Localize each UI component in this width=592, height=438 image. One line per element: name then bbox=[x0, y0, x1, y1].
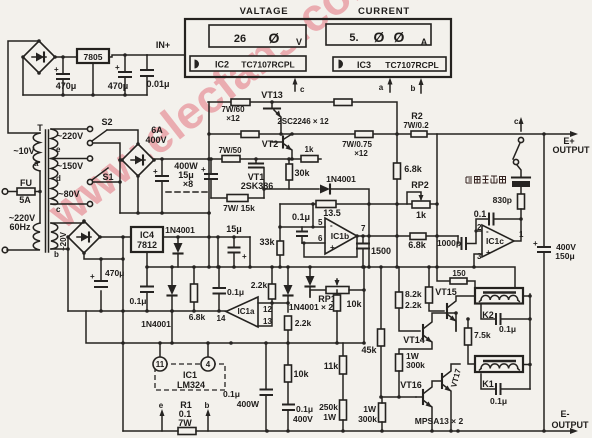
resistor 2.2k (below diode) bbox=[287, 330, 289, 343]
resistor 6.8k vertical x397 bbox=[396, 134, 398, 267]
capacitor 0.1u (IC1a in) bbox=[218, 267, 220, 311]
svg-text:6A: 6A bbox=[151, 125, 163, 135]
wire E+ rail y134 bbox=[209, 133, 574, 135]
svg-text:1500: 1500 bbox=[371, 246, 391, 256]
svg-text:11: 11 bbox=[156, 360, 165, 369]
pin circle 11 bbox=[159, 343, 161, 357]
resistor 45k bbox=[380, 267, 382, 397]
tap wire ~80V bbox=[51, 203, 87, 205]
svg-text:2.2k: 2.2k bbox=[295, 318, 312, 328]
svg-text:+: + bbox=[90, 272, 95, 281]
node a arrow under meter bbox=[389, 81, 391, 92]
wire y397 to VT16 base bbox=[381, 396, 416, 398]
svg-text:IC1b: IC1b bbox=[331, 231, 349, 241]
svg-text:45k: 45k bbox=[361, 345, 377, 355]
wire bridge3 bottom to cap 470u bbox=[84, 253, 123, 311]
transformer core bbox=[46, 130, 49, 252]
svg-text:S2: S2 bbox=[101, 117, 112, 127]
svg-text:+: + bbox=[54, 65, 59, 74]
svg-text:0.1μ: 0.1μ bbox=[499, 324, 516, 334]
resistor 6.8k (IC1a) bbox=[193, 267, 195, 311]
wire main bus x209 bbox=[208, 102, 210, 267]
capacitor C1 470u bbox=[62, 57, 64, 95]
svg-text:T: T bbox=[37, 123, 43, 133]
svg-text:b: b bbox=[411, 84, 416, 93]
switch S2 bbox=[87, 140, 92, 145]
svg-text:~10V: ~10V bbox=[13, 146, 34, 156]
svg-text:1k: 1k bbox=[416, 210, 427, 220]
op-amp IC1b bbox=[325, 218, 357, 254]
resistor 8.2k bbox=[399, 267, 420, 331]
wire bridge2 bottom to rail bbox=[137, 176, 139, 213]
svg-text:7W/ 15k: 7W/ 15k bbox=[223, 203, 255, 213]
svg-text:1N4001: 1N4001 bbox=[141, 319, 171, 329]
capacitor C2 470u bbox=[124, 55, 126, 95]
svg-text:IC2: IC2 bbox=[215, 60, 229, 70]
capacitor 0.1u 400W bbox=[265, 343, 267, 431]
diode 1N4001 (x172) bbox=[171, 267, 173, 343]
wire bridge1 left down bbox=[22, 57, 24, 95]
wire 7805 to IN+ bbox=[109, 55, 147, 57]
svg-text:VT16: VT16 bbox=[400, 380, 422, 390]
svg-text:~220V: ~220V bbox=[57, 131, 83, 141]
wire winding to fuse junction bbox=[39, 171, 41, 223]
svg-text:E-: E- bbox=[561, 409, 570, 419]
svg-text:470μ: 470μ bbox=[105, 268, 124, 278]
wire bridge1 out to 7805 bbox=[55, 56, 77, 58]
svg-text:0.1μ: 0.1μ bbox=[223, 389, 240, 399]
svg-text:300k: 300k bbox=[406, 360, 425, 370]
svg-text:VT15: VT15 bbox=[435, 287, 457, 297]
svg-text:1W: 1W bbox=[323, 412, 337, 422]
transistor VT1 2SK386 bbox=[255, 159, 257, 163]
svg-text:33k: 33k bbox=[259, 237, 275, 247]
svg-text:RP2: RP2 bbox=[411, 180, 429, 190]
wire bridge3 to IC4 bbox=[100, 236, 131, 238]
svg-text:IC4: IC4 bbox=[140, 230, 154, 240]
svg-text:V: V bbox=[296, 37, 302, 47]
svg-text:15μ: 15μ bbox=[226, 224, 242, 234]
svg-text:1k: 1k bbox=[305, 145, 314, 154]
svg-text:7805: 7805 bbox=[84, 52, 103, 62]
wire K relays right bus bbox=[523, 294, 530, 389]
svg-text:+: + bbox=[115, 63, 120, 72]
meter panel outer box bbox=[185, 19, 451, 77]
bottom rail y431 bbox=[123, 430, 574, 432]
svg-text:1W: 1W bbox=[363, 404, 377, 414]
regulator 7805 box bbox=[77, 49, 109, 63]
svg-text:7W/60: 7W/60 bbox=[221, 105, 245, 114]
resistor 250k 1W bbox=[340, 400, 347, 420]
wire top rail y102 bbox=[208, 102, 397, 134]
svg-text:300k: 300k bbox=[358, 414, 377, 424]
resistor 2.2k (VT15) bbox=[429, 267, 444, 311]
tap wire ~220V bbox=[51, 128, 87, 130]
svg-text:5A: 5A bbox=[19, 195, 31, 205]
node c arrow under meter bbox=[294, 81, 296, 91]
svg-text:7.5k: 7.5k bbox=[474, 330, 491, 340]
svg-text:+: + bbox=[330, 243, 335, 252]
wire rail y159 bbox=[209, 158, 321, 160]
terminal AC1 bbox=[2, 189, 8, 195]
svg-text:250k: 250k bbox=[319, 402, 338, 412]
svg-text:+: + bbox=[242, 252, 247, 261]
resistor 7.5k bbox=[468, 319, 475, 364]
svg-text:TC7107RCPL: TC7107RCPL bbox=[385, 60, 438, 70]
svg-text:470μ: 470μ bbox=[56, 81, 77, 91]
svg-text:0.01μ: 0.01μ bbox=[146, 79, 169, 89]
relay K1 bbox=[475, 356, 523, 372]
wire rail y267 bbox=[147, 267, 515, 288]
svg-text:14: 14 bbox=[217, 314, 226, 323]
svg-text:LM324: LM324 bbox=[177, 380, 205, 390]
svg-text:6.8k: 6.8k bbox=[404, 164, 423, 174]
capacitor 0.1u (K1) bbox=[481, 374, 530, 389]
svg-text:OUTPUT: OUTPUT bbox=[553, 145, 591, 155]
svg-text:30k: 30k bbox=[294, 168, 310, 178]
svg-text:IC1c: IC1c bbox=[486, 236, 504, 246]
svg-text:×12: ×12 bbox=[226, 114, 240, 123]
wire bridge3 left down to rail y311 bbox=[67, 237, 69, 311]
svg-text:26: 26 bbox=[234, 33, 246, 45]
wire bridge1 top to left bus bbox=[8, 41, 40, 133]
svg-text:0.1μ: 0.1μ bbox=[129, 296, 146, 306]
feedback loop IC1b bbox=[304, 236, 357, 257]
wire 7805 ground pin bbox=[92, 63, 94, 95]
transformer winding ~20V bbox=[51, 223, 58, 249]
piezo buzzer label (CJK drawn) bbox=[466, 176, 506, 183]
svg-text:b: b bbox=[205, 401, 210, 410]
svg-text:×8: ×8 bbox=[183, 179, 193, 189]
bus x123 down bbox=[122, 237, 124, 431]
current display window bbox=[326, 24, 431, 45]
svg-text:c: c bbox=[56, 205, 61, 214]
svg-text:1N4001: 1N4001 bbox=[326, 174, 356, 184]
svg-text:+: + bbox=[153, 167, 158, 176]
regulator IC4 7812 bbox=[131, 227, 163, 252]
wire to bridge2 left bbox=[120, 159, 122, 161]
op-amp IC1a bbox=[226, 297, 258, 327]
svg-text:+: + bbox=[486, 248, 491, 257]
svg-text:MPSA13 × 2: MPSA13 × 2 bbox=[415, 416, 464, 426]
svg-text:0.1μ: 0.1μ bbox=[490, 396, 507, 406]
svg-text:b: b bbox=[54, 250, 59, 259]
resistor 6.8k (pin7 wire) bbox=[410, 233, 426, 240]
svg-text:400V: 400V bbox=[293, 414, 313, 424]
svg-text:+: + bbox=[201, 165, 206, 174]
resistor 7W15k bbox=[211, 197, 264, 199]
pin1 output wire bbox=[514, 219, 521, 241]
capacitor bank C 400W 15u x8 bbox=[161, 159, 163, 213]
op-amp U? IC2 box TC7107RCPL bbox=[190, 56, 306, 71]
svg-text:6.8k: 6.8k bbox=[189, 312, 206, 322]
bridge rectifier B2 6A 400V bbox=[120, 142, 156, 178]
pin 7 wire bbox=[357, 235, 458, 237]
wire x218 link bbox=[217, 237, 219, 267]
diode 1N4001 x2 b bbox=[309, 267, 311, 297]
svg-text:0.1μ: 0.1μ bbox=[296, 404, 313, 414]
svg-text:VT2: VT2 bbox=[262, 139, 279, 149]
pin 5 wire bbox=[280, 204, 325, 227]
svg-text:K1: K1 bbox=[482, 379, 494, 389]
wire rail y213 bbox=[120, 212, 210, 214]
svg-text:7W/0.75: 7W/0.75 bbox=[342, 140, 372, 149]
svg-text:11k: 11k bbox=[324, 361, 340, 371]
svg-text:IC1: IC1 bbox=[183, 370, 197, 380]
pin circle 4 bbox=[207, 343, 209, 357]
svg-text:150: 150 bbox=[452, 269, 466, 278]
transformer winding primary lower bbox=[7, 223, 40, 250]
pin 6 wire bbox=[302, 242, 325, 244]
capacitor 1500 bbox=[362, 236, 364, 267]
svg-text:OUTPUT: OUTPUT bbox=[552, 420, 590, 430]
svg-text:400V: 400V bbox=[145, 135, 166, 145]
svg-text:13.5: 13.5 bbox=[323, 208, 341, 218]
transformer winding ~10V bbox=[33, 133, 40, 171]
svg-text:2.2k: 2.2k bbox=[251, 280, 268, 290]
resistor 11k bbox=[342, 343, 344, 400]
rail y311 bbox=[68, 310, 226, 312]
svg-text:CURRENT: CURRENT bbox=[358, 6, 410, 17]
wire x437 down to 150 bbox=[437, 134, 450, 281]
wire IN+ to meter bbox=[147, 54, 185, 56]
wire dashed cap-bank bbox=[166, 191, 208, 193]
wire switch common bus bbox=[93, 143, 120, 213]
wire IC4 output bbox=[163, 236, 250, 238]
wire y189 bbox=[264, 189, 369, 267]
voltage display window bbox=[209, 25, 306, 47]
svg-text:1N4001: 1N4001 bbox=[165, 225, 195, 235]
tap wire ~150V bbox=[51, 158, 87, 160]
svg-text:13: 13 bbox=[263, 317, 272, 326]
diode 1N4001 x2 a bbox=[287, 267, 289, 312]
svg-text:×12: ×12 bbox=[354, 149, 368, 158]
svg-text:6: 6 bbox=[318, 234, 323, 243]
svg-text:e: e bbox=[159, 401, 164, 410]
svg-text:S1: S1 bbox=[102, 172, 113, 182]
svg-text:10k: 10k bbox=[293, 369, 309, 379]
watermark main diagonal bbox=[37, 0, 393, 238]
terminal AC2 bbox=[2, 247, 8, 253]
svg-text:a: a bbox=[34, 159, 39, 168]
svg-text:Ø: Ø bbox=[394, 29, 405, 45]
svg-text:400W: 400W bbox=[237, 399, 260, 409]
resistor top right on rail y102 bbox=[334, 99, 352, 106]
svg-text:7W/0.2: 7W/0.2 bbox=[403, 121, 429, 130]
bridge rectifier B1 bbox=[21, 39, 57, 75]
capacitor 470u (lower) bbox=[94, 281, 108, 287]
svg-text:VALTAGE: VALTAGE bbox=[240, 6, 289, 17]
pin3 wire bbox=[474, 254, 482, 267]
wire IC4 gnd down bbox=[146, 252, 148, 267]
svg-text:12: 12 bbox=[263, 305, 272, 314]
svg-text:0.1: 0.1 bbox=[474, 209, 487, 219]
svg-text:IC1a: IC1a bbox=[238, 307, 255, 316]
resistor 7W0.75 x12 on rail y134 bbox=[355, 131, 373, 138]
transformer secondary winding upper (taps) bbox=[51, 129, 58, 204]
svg-text:Ø: Ø bbox=[269, 30, 280, 46]
svg-text:7812: 7812 bbox=[137, 240, 157, 250]
resistor 30k bbox=[288, 159, 290, 189]
svg-text:4: 4 bbox=[206, 360, 211, 369]
svg-text:0.1μ: 0.1μ bbox=[227, 287, 244, 297]
svg-text:R2: R2 bbox=[411, 111, 423, 121]
svg-text:e: e bbox=[56, 145, 61, 154]
svg-text:~150V: ~150V bbox=[57, 161, 83, 171]
svg-text:2SC2246 × 12: 2SC2246 × 12 bbox=[277, 117, 329, 126]
svg-text:150μ: 150μ bbox=[555, 251, 574, 261]
resistor 10k (x288) bbox=[287, 343, 289, 404]
svg-text:7: 7 bbox=[361, 224, 366, 233]
svg-text:VT14: VT14 bbox=[403, 335, 425, 345]
svg-text:IC3: IC3 bbox=[357, 60, 371, 70]
resistor 13.5 bbox=[316, 201, 336, 208]
svg-text:TC7107RCPL: TC7107RCPL bbox=[241, 60, 294, 70]
svg-text:10k: 10k bbox=[346, 299, 362, 309]
svg-text:~80V: ~80V bbox=[58, 189, 79, 199]
svg-text:830p: 830p bbox=[493, 195, 512, 205]
svg-text:0.1μ: 0.1μ bbox=[292, 212, 310, 222]
wire y204 bbox=[280, 203, 437, 205]
svg-text:5: 5 bbox=[318, 218, 323, 227]
svg-text:8.2k: 8.2k bbox=[405, 289, 422, 299]
svg-text:470μ: 470μ bbox=[108, 81, 129, 91]
resistor 1W 300k (lower) bbox=[379, 403, 386, 422]
IC1 LM324 dashed box bbox=[155, 364, 225, 390]
svg-text:6.8k: 6.8k bbox=[408, 240, 427, 250]
wire winding to bridge3 bbox=[51, 221, 84, 249]
node b arrow under meter bbox=[420, 82, 422, 93]
bridge rectifier B3 bbox=[66, 219, 102, 255]
svg-text:7W/50: 7W/50 bbox=[218, 146, 242, 155]
svg-text:60Hz: 60Hz bbox=[9, 222, 31, 232]
resistor 1W 300k (upper) bbox=[396, 354, 403, 371]
IC3 box TC7107RCPL bbox=[333, 57, 446, 71]
potentiometer RP1 bbox=[310, 290, 326, 297]
capacitor 0.1u (IC4 out) bbox=[146, 267, 148, 311]
wire bottom power rail bbox=[23, 94, 147, 96]
svg-text:-: - bbox=[330, 221, 333, 230]
op-amp IC1c bbox=[482, 225, 514, 257]
svg-text:2: 2 bbox=[477, 223, 482, 232]
svg-text:IN+: IN+ bbox=[156, 40, 170, 50]
svg-text:7W: 7W bbox=[178, 418, 192, 428]
svg-text:2.2k: 2.2k bbox=[405, 300, 422, 310]
svg-text:5.: 5. bbox=[349, 32, 358, 44]
svg-text:d: d bbox=[56, 174, 61, 183]
pins 12 13 bbox=[258, 303, 288, 326]
relay K2 bbox=[475, 288, 523, 304]
wire tap220 to bridge2 top bbox=[107, 130, 138, 144]
svg-text:FU: FU bbox=[20, 178, 32, 188]
capacitor C3 0.01u bbox=[146, 55, 148, 95]
svg-text:-: - bbox=[486, 227, 489, 236]
svg-text:VT13: VT13 bbox=[261, 90, 283, 100]
svg-text:c: c bbox=[300, 85, 305, 94]
wire bridge2 output bbox=[154, 158, 209, 160]
diode 1N4001 (y189) bbox=[320, 185, 330, 194]
svg-text:Ø: Ø bbox=[374, 29, 385, 45]
svg-text:A: A bbox=[421, 37, 428, 47]
svg-text:c: c bbox=[514, 117, 519, 126]
capacitor 400V 150u bbox=[543, 134, 545, 431]
fuse FU 5A bbox=[17, 188, 35, 195]
svg-text:a: a bbox=[379, 83, 384, 92]
resistor 7W60 x12 bbox=[231, 99, 250, 106]
capacitor 0.1u 400V bbox=[282, 405, 295, 411]
svg-text:+: + bbox=[533, 239, 538, 248]
resistor on rail y134 left bbox=[241, 131, 259, 138]
switch S1 bbox=[87, 179, 92, 184]
capacitor 830p bbox=[518, 194, 525, 209]
capacitor 0.1u (K2) bbox=[481, 305, 530, 319]
rail y343 bbox=[86, 311, 364, 343]
